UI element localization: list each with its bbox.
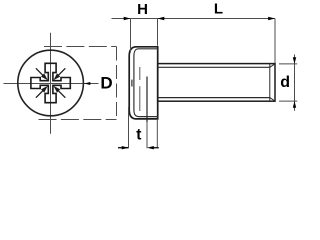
pozidriv 45deg tick upper-left xyxy=(41,73,48,80)
recess opening notch at dome apex xyxy=(131,80,133,87)
d extension line top xyxy=(279,63,297,65)
t dimension line left segment xyxy=(118,147,129,149)
svg-text:H: H xyxy=(137,1,148,18)
svg-text:L: L xyxy=(214,1,223,18)
pozidriv 45deg tick lower-left xyxy=(41,86,48,93)
svg-text:d: d xyxy=(280,74,290,91)
chamfer diagonal bottom xyxy=(270,98,275,101)
recess wall line upper xyxy=(139,67,141,80)
screw head outline (side view) xyxy=(129,47,158,119)
L extension line right xyxy=(274,19,276,64)
t arrow right xyxy=(147,146,154,149)
d extension line bottom xyxy=(279,100,297,102)
top dimension line middle segment xyxy=(131,18,158,20)
thread minor line top xyxy=(158,66,270,68)
horizontal centerline / D leader xyxy=(4,83,99,85)
t extension line right (recess line extended) xyxy=(146,122,148,148)
recess depth line in head xyxy=(146,77,148,123)
t dimension line right segment xyxy=(153,147,159,149)
chamfer diagonal top xyxy=(270,64,275,68)
top dimension line L segment xyxy=(158,18,276,20)
pozidriv recess stepped plus outline xyxy=(31,63,70,102)
H/L shared extension line xyxy=(157,19,159,46)
d arrow top xyxy=(293,57,296,64)
t arrow left xyxy=(122,146,129,149)
H arrow left xyxy=(124,17,131,20)
head inner inset contour xyxy=(134,49,158,117)
D dimension arrowhead at circle edge xyxy=(84,82,90,85)
head circle (front view) xyxy=(18,50,84,116)
L arrow right xyxy=(268,17,275,20)
top dimension line H segment xyxy=(112,18,131,20)
svg-text:t: t xyxy=(136,127,141,144)
H extension line left xyxy=(130,19,132,53)
pozidriv 45deg tick lower-right xyxy=(53,86,60,93)
dashed projection line vertical xyxy=(116,47,118,120)
pozidriv 45deg tick upper-right xyxy=(53,73,60,80)
vertical centerline of head front view xyxy=(50,33,52,134)
d dimension line xyxy=(294,55,296,111)
recess wall line lower xyxy=(139,86,141,111)
H/L arrow middle xyxy=(158,17,165,20)
thread minor line bottom xyxy=(158,97,270,99)
d arrow bottom xyxy=(293,101,296,108)
head face extension below head xyxy=(156,119,158,147)
thread end chamfer line xyxy=(269,64,271,102)
dashed projection line bottom xyxy=(39,119,117,121)
dashed projection line top xyxy=(44,46,117,48)
svg-text:D: D xyxy=(100,74,112,93)
threaded shank outline xyxy=(158,64,275,102)
t extension line left xyxy=(128,107,130,148)
